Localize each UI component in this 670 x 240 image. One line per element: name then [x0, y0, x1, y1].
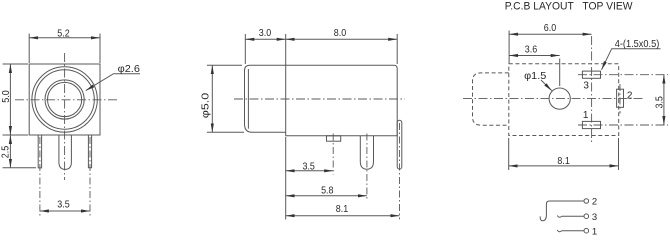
dimension 3.5 line (pcb right) — [663, 75, 665, 125]
label leader 1.5 dia hole — [541, 80, 552, 91]
pcb layout outline dashed — [509, 64, 619, 136]
dimension 8.0 line — [286, 38, 398, 40]
dimension 5.2 extension lines — [28, 34, 30, 64]
dimension 3.5 line (side) — [286, 170, 334, 172]
dimension 3.6 extension to hole — [559, 59, 561, 87]
side view rear pin — [397, 120, 402, 169]
schematic pin3 contact hook — [557, 216, 561, 218]
schematic pin1 terminal circle — [584, 228, 589, 233]
front view horizontal centerline — [15, 99, 118, 101]
svg-text:8.1: 8.1 — [336, 204, 349, 215]
svg-text:5.8: 5.8 — [321, 185, 334, 196]
svg-text:2: 2 — [627, 91, 633, 102]
svg-text:2: 2 — [592, 196, 597, 207]
dimension 5.2 line — [29, 37, 100, 39]
dimension 5.8 line — [286, 195, 367, 197]
dimension 3.6 line — [509, 55, 560, 57]
pcb layout slot 1 — [582, 121, 600, 128]
svg-text:5.0: 5.0 — [1, 90, 12, 103]
front view hole outer circle — [45, 80, 84, 119]
svg-text:4-(1.5x0.5): 4-(1.5x0.5) — [615, 39, 660, 50]
pcb layout slot3 horizontal centerline — [578, 74, 668, 76]
schematic pin1 contact hook — [557, 230, 561, 232]
dimension 5.0 line — [9, 64, 11, 135]
dimension 8.1 extension lines (pcb) — [508, 138, 510, 170]
dimension 3.5 line (front) — [40, 210, 90, 212]
pcb layout slot1 horizontal centerline — [578, 124, 668, 126]
dimension 6.0 extension line — [508, 31, 510, 64]
svg-text:8.0: 8.0 — [334, 28, 347, 39]
svg-text:φ5.0: φ5.0 — [201, 92, 212, 118]
side view bushing front contour line — [247, 69, 249, 129]
pcb layout slot 3 — [582, 71, 600, 78]
dimension 3.0 extension line — [244, 34, 246, 64]
side view small tab pin — [327, 136, 341, 141]
label leader 2.6 — [86, 74, 140, 91]
svg-text:6.0: 6.0 — [544, 23, 557, 34]
schematic pin1 wire — [562, 230, 584, 232]
svg-text:8.1: 8.1 — [557, 156, 570, 167]
side view tab pin centerline — [332, 134, 334, 175]
label leader 4-slot — [602, 49, 661, 70]
front view right pin centerline — [89, 137, 91, 216]
pcb layout bushing dashed — [473, 73, 509, 125]
front view outer bushing circle — [32, 67, 97, 132]
svg-text:φ1.5: φ1.5 — [524, 71, 546, 82]
svg-text:φ2.6: φ2.6 — [118, 64, 141, 75]
svg-text:3.0: 3.0 — [259, 28, 272, 39]
svg-text:3.5: 3.5 — [57, 200, 70, 211]
dimension 5.0 dia extension lines — [207, 64, 242, 66]
dimension 5.0 extension lines — [3, 63, 29, 65]
pcb layout slots vertical centerline — [591, 36, 593, 143]
dimension 8.0 right extension line — [396, 34, 398, 64]
side view round pin centerline — [366, 134, 368, 200]
pcb layout hole 1.5 dia — [549, 88, 570, 109]
svg-text:3.5: 3.5 — [303, 161, 316, 172]
dimension 8.1 line (pcb) — [509, 165, 619, 167]
dimension 3.0/8.0 shared extension line — [285, 34, 287, 65]
svg-text:1: 1 — [583, 110, 589, 121]
dimension 6.0 line — [509, 33, 591, 35]
dimension 5.0 dia line — [211, 65, 213, 132]
side view round pin — [360, 136, 373, 169]
svg-text:2.5: 2.5 — [0, 146, 11, 159]
schematic pin3 terminal circle — [584, 214, 589, 219]
side view centerline — [234, 98, 405, 100]
side view main body — [286, 65, 398, 136]
front view hole inner circle — [48, 82, 82, 116]
svg-text:3: 3 — [583, 81, 589, 92]
front view vertical centerline — [64, 53, 66, 180]
front view middle pin — [59, 135, 72, 169]
front view left pin centerline — [39, 137, 41, 216]
side view rear pin extension centerline — [399, 123, 401, 219]
svg-text:3.6: 3.6 — [525, 45, 538, 56]
side bottom dims shared extension line — [285, 137, 287, 220]
front view right pin — [88, 135, 91, 168]
svg-text:1: 1 — [592, 226, 597, 236]
dimension 8.1 line (side) — [286, 215, 400, 217]
pcb layout main horizontal centerline — [463, 98, 644, 100]
front view square body — [29, 64, 100, 135]
front view thread circle — [35, 70, 94, 129]
front view left pin — [38, 135, 41, 168]
svg-text:3.5: 3.5 — [655, 96, 666, 109]
svg-text:5.2: 5.2 — [57, 29, 70, 40]
pcb layout slot 2 — [617, 89, 624, 107]
pcb layout slot2 vertical centerline — [619, 84, 621, 114]
schematic pin2 wire with sleeve hook — [540, 201, 584, 221]
schematic pin3 wire — [562, 215, 584, 217]
svg-text:3: 3 — [592, 212, 597, 223]
svg-text:P.C.B LAYOUT TOP VIEW: P.C.B LAYOUT TOP VIEW — [505, 0, 633, 12]
dimension 3.0 line — [245, 38, 285, 40]
schematic pin2 terminal circle — [584, 199, 589, 204]
dimension 2.5 extension line — [3, 167, 37, 169]
side view front bushing — [245, 65, 286, 132]
dimension 2.5 line — [9, 135, 11, 168]
